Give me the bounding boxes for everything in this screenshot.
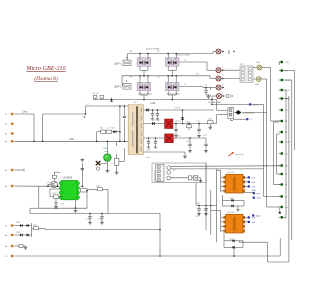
svg-text:R7: R7 bbox=[196, 74, 200, 76]
diode VD16 bbox=[152, 122, 155, 125]
capacitor C6 bbox=[100, 95, 104, 98]
diamond arrow bbox=[234, 111, 236, 113]
arrow marker right bus bbox=[278, 211, 281, 214]
svg-text:ХА2: ХА2 bbox=[255, 83, 260, 86]
diodes under U6 row2 bbox=[223, 205, 232, 207]
svg-text:оп3: оп3 bbox=[252, 186, 256, 188]
wire relay row1 top pins bbox=[139, 54, 141, 58]
svg-text:общ: общ bbox=[257, 198, 261, 200]
wire right bus v4 bbox=[272, 122, 274, 185]
svg-text:оп1: оп1 bbox=[252, 177, 256, 179]
resistor R20 bbox=[52, 175, 56, 178]
svg-text:ДИР 2: ДИР 2 bbox=[115, 86, 123, 89]
relay U2 AQW210HAX bbox=[165, 58, 179, 66]
wire U7 to bottom rail bbox=[233, 247, 235, 256]
wire UC loop left bbox=[39, 185, 59, 187]
wire right bus v7 bbox=[285, 90, 287, 217]
wire relay row2 bottom brackets bbox=[139, 91, 141, 95]
svg-text:ХД2: ХД2 bbox=[252, 190, 257, 192]
wire right bus v10 bbox=[293, 71, 295, 151]
capacitor C27 bbox=[205, 138, 207, 144]
capacitor C26 bbox=[198, 124, 200, 129]
svg-text:Упр: Упр bbox=[285, 207, 289, 209]
wire mid long bbox=[44, 228, 46, 229]
svg-text:UC3843: UC3843 bbox=[63, 176, 73, 180]
capacitor C19 bbox=[101, 214, 103, 217]
wire v2 top bbox=[243, 111, 267, 113]
input pin 10 bbox=[11, 255, 13, 257]
ground UC bbox=[74, 200, 76, 208]
svg-text:1к: 1к bbox=[184, 60, 186, 62]
wire right bus v8 bbox=[288, 96, 290, 262]
svg-text:0В: 0В bbox=[285, 154, 288, 156]
fan connector XP3 bbox=[156, 164, 164, 181]
svg-text:СУ2: СУ2 bbox=[16, 222, 21, 224]
svg-text:Т2: Т2 bbox=[285, 185, 288, 187]
input pin 8в bbox=[11, 234, 13, 236]
wire header to XA1 bbox=[253, 67, 257, 69]
fan motor M bbox=[194, 175, 198, 180]
svg-text:С29: С29 bbox=[146, 150, 151, 152]
input pin 3в bbox=[11, 132, 13, 134]
wire fan1 to bus bbox=[171, 165, 281, 168]
wire X3 to header bbox=[221, 78, 240, 80]
svg-text:AQW210HAX: AQW210HAX bbox=[177, 53, 191, 56]
resistor R33 bbox=[208, 121, 214, 124]
jack X3 bbox=[216, 76, 221, 81]
jack XA2 olive bbox=[256, 77, 261, 82]
svg-text:3: 3 bbox=[222, 75, 224, 77]
net taps right of U6 bbox=[248, 176, 250, 178]
rectifier R-box VD14 bbox=[144, 123, 165, 125]
svg-text:(Плата 8): (Плата 8) bbox=[34, 75, 57, 82]
wire right bus v2 bbox=[266, 112, 268, 207]
wire U6 right pins bbox=[243, 176, 248, 178]
wire ДИР1 feed bbox=[126, 54, 128, 61]
wire right bus v6 bbox=[278, 62, 280, 65]
resistor R35 bbox=[188, 176, 192, 180]
svg-text:С23 10мк: С23 10мк bbox=[151, 120, 161, 122]
capacitor C29 bbox=[148, 138, 150, 141]
capacitor C22 bbox=[210, 88, 212, 91]
thyristor VS1 bbox=[106, 161, 108, 163]
polarity mark bbox=[83, 116, 85, 118]
jack X2 bbox=[216, 68, 221, 73]
wire rail to connector bbox=[216, 100, 218, 111]
svg-text:+12с: +12с bbox=[253, 104, 259, 106]
wire v1 top bbox=[249, 103, 264, 105]
wire fan2 to bus bbox=[171, 168, 264, 170]
svg-text:зел.: зел. bbox=[105, 151, 109, 153]
net terminal +12В bbox=[281, 79, 283, 81]
arrow at X4 bbox=[222, 87, 224, 89]
red wire arrow bbox=[228, 153, 233, 157]
IC U5 UC3843 bbox=[61, 181, 78, 200]
svg-text:9в: 9в bbox=[5, 246, 8, 248]
rectifier R-box VD15 bbox=[144, 137, 165, 139]
svg-text:вых: вых bbox=[257, 193, 262, 195]
svg-text:VD20: VD20 bbox=[229, 198, 235, 200]
net terminal НГ bbox=[281, 195, 283, 197]
net terminal +5В bbox=[281, 61, 283, 63]
svg-text:6в: 6в bbox=[5, 186, 8, 188]
svg-text:Тр1: Тр1 bbox=[133, 102, 137, 104]
svg-text:С5 С6: С5 С6 bbox=[93, 93, 100, 95]
net terminal 0В bbox=[281, 69, 283, 71]
diode VD13 down bbox=[182, 110, 184, 117]
wire fan box bottom to caps bbox=[195, 183, 197, 206]
capacitor C16 bbox=[59, 196, 62, 198]
net terminal Т1 bbox=[281, 173, 283, 175]
connector header XP1 bbox=[240, 66, 253, 82]
capacitor C24 bbox=[157, 110, 159, 113]
jack XA1 olive bbox=[257, 65, 262, 70]
wire relay row1 bottom brackets bbox=[139, 66, 141, 70]
fan jack circles bbox=[167, 166, 171, 170]
net terminal Тпл bbox=[281, 109, 283, 111]
svg-text:4: 4 bbox=[222, 84, 224, 86]
input pin 5в bbox=[11, 169, 13, 171]
wire bottom rail of relay section bbox=[93, 99, 217, 101]
wire UC loop right bbox=[86, 191, 88, 208]
wire mid vertical 3 bbox=[216, 169, 218, 243]
svg-text:12В: 12В bbox=[208, 119, 212, 121]
svg-text:С4: С4 bbox=[157, 77, 161, 79]
svg-text:1в: 1в bbox=[5, 114, 8, 116]
wire top bus bbox=[127, 53, 213, 55]
svg-text:Б1: Б1 bbox=[285, 217, 288, 219]
svg-text:VD3: VD3 bbox=[111, 128, 116, 130]
connector ДИР1 bbox=[123, 60, 131, 66]
resistor R26 bbox=[97, 188, 102, 191]
ground U6 bbox=[237, 206, 239, 209]
wire +300 rail bbox=[15, 140, 129, 142]
svg-text:0В: 0В bbox=[285, 71, 288, 73]
svg-text:+300: +300 bbox=[69, 138, 75, 141]
net taps right of U7 bbox=[248, 216, 250, 218]
net terminal Д1 bbox=[281, 120, 283, 122]
svg-text:5: 5 bbox=[222, 93, 224, 95]
svg-text:-12В: -12В bbox=[285, 90, 290, 92]
svg-text:ХА1: ХА1 bbox=[256, 61, 261, 64]
capacitor C18 bbox=[89, 214, 91, 217]
wire after VD14 bbox=[173, 123, 217, 125]
svg-text:С7: С7 bbox=[86, 104, 90, 106]
svg-text:Б: Б bbox=[228, 49, 231, 54]
svg-text:С27: С27 bbox=[203, 135, 208, 137]
svg-text:1n: 1n bbox=[107, 128, 110, 130]
capacitor C7 bbox=[123, 106, 125, 116]
resistor R31 bbox=[187, 125, 192, 128]
relay U1 AQW210HAX bbox=[137, 58, 151, 66]
diodes under U7 row1 bbox=[224, 240, 232, 242]
wire to sense bbox=[107, 189, 109, 213]
bottom long wire bbox=[15, 255, 281, 257]
wire XA2 to bus bbox=[261, 78, 266, 80]
wire X2 to header bbox=[221, 69, 240, 71]
relay U4 AQW210HAX bbox=[165, 82, 179, 90]
net terminal 0В bbox=[281, 152, 283, 154]
relay U3 AQW210HAX bbox=[137, 82, 151, 90]
net terminal Б1 bbox=[281, 216, 283, 218]
svg-text:ТНУ-05: ТНУ-05 bbox=[227, 212, 235, 214]
capacitor C30 bbox=[155, 138, 157, 141]
svg-text:С31: С31 bbox=[195, 216, 200, 218]
IC U6 (optodriver) bbox=[226, 174, 243, 193]
net taps lower bbox=[253, 192, 255, 194]
net tap T bbox=[233, 118, 246, 120]
ground under LED bbox=[106, 163, 108, 169]
wire right bus v3 bbox=[270, 68, 272, 122]
svg-text:VD22: VD22 bbox=[229, 238, 235, 240]
diode VD12 bbox=[144, 109, 147, 111]
lower rail bbox=[30, 213, 160, 215]
wire U6 left pins bbox=[221, 176, 224, 178]
svg-text:-t°: -t° bbox=[250, 118, 252, 121]
fan circuit outline bbox=[152, 163, 206, 183]
pin9 parts bbox=[15, 245, 19, 247]
svg-text:СУ3: СУ3 bbox=[16, 232, 21, 234]
arrow at X3 bbox=[222, 78, 224, 80]
resistor R22 bbox=[53, 195, 58, 198]
svg-text:+24В: +24В bbox=[285, 142, 291, 144]
svg-text:R26: R26 bbox=[97, 185, 102, 187]
svg-text:С26: С26 bbox=[197, 121, 202, 123]
svg-text:R2: R2 bbox=[130, 51, 134, 53]
svg-text:красный: красный bbox=[235, 153, 244, 156]
connector ДИР2 bbox=[123, 84, 131, 90]
net terminal Вен bbox=[281, 164, 283, 166]
wire bottom tap bbox=[144, 151, 186, 153]
svg-text:С9: С9 bbox=[204, 85, 208, 87]
wire relay to circle K3 bbox=[209, 76, 211, 79]
wire top rail to connector bbox=[211, 104, 213, 106]
wire U7 left pins bbox=[221, 216, 224, 218]
svg-text:3в: 3в bbox=[5, 133, 8, 135]
capacitor C21 bbox=[205, 88, 207, 91]
wire relay row2 top pins bbox=[139, 76, 141, 83]
transformer primary winding A bbox=[131, 113, 134, 126]
wire UC loop bottom bbox=[39, 207, 87, 209]
input pin 7в bbox=[11, 224, 13, 226]
input pin 4в bbox=[11, 140, 13, 142]
diode VD3 bbox=[112, 131, 114, 133]
transistor VT2 bbox=[51, 181, 57, 187]
svg-text:оп4: оп4 bbox=[252, 217, 256, 219]
svg-text:2: 2 bbox=[222, 67, 224, 69]
svg-text:R22: R22 bbox=[53, 193, 58, 195]
wire U7 right pins bbox=[243, 216, 248, 218]
svg-text:оп2: оп2 bbox=[252, 182, 256, 184]
capacitor C15 top bbox=[81, 163, 83, 186]
heater connector XP2 bbox=[228, 107, 234, 118]
wire to circle K5 bbox=[211, 96, 213, 100]
wire right bus v5 bbox=[276, 134, 278, 174]
arrow at X2 bbox=[222, 69, 224, 71]
svg-text:ХДЗ: ХДЗ bbox=[256, 216, 261, 218]
wire top primary feed bbox=[86, 105, 129, 107]
svg-text:Вентилятор: Вентилятор bbox=[154, 169, 156, 181]
net tap +12 bbox=[249, 103, 251, 105]
input pin 2в bbox=[11, 123, 13, 125]
svg-text:1Упр: 1Упр bbox=[22, 111, 28, 114]
capacitor C23 bbox=[152, 110, 154, 113]
svg-text:7в: 7в bbox=[5, 225, 8, 227]
transformer primary winding B bbox=[131, 131, 134, 147]
svg-text:R25: R25 bbox=[81, 186, 86, 188]
jack X5 bbox=[217, 94, 222, 99]
wire bottom right loop bbox=[279, 238, 281, 256]
diodes under U6 row1 bbox=[223, 199, 232, 201]
wire pin6 to UC loop bbox=[15, 185, 39, 187]
svg-text:Д2: Д2 bbox=[285, 132, 288, 134]
svg-text:ДИР 1: ДИР 1 bbox=[115, 62, 123, 65]
svg-text:+12В: +12В bbox=[285, 80, 291, 82]
svg-text:AQW210HAX: AQW210HAX bbox=[146, 48, 160, 51]
input pin 1в bbox=[11, 113, 13, 115]
svg-text:ХР1: ХР1 bbox=[240, 64, 245, 66]
wire snubber down bbox=[119, 132, 121, 142]
capacitor C5 bbox=[93, 95, 97, 98]
svg-text:пит.: пит. bbox=[173, 169, 177, 171]
svg-text:VD14: VD14 bbox=[175, 121, 181, 123]
resistor R30 bbox=[34, 227, 39, 230]
wire mid bus bbox=[122, 75, 210, 77]
wire rail bbox=[211, 100, 213, 105]
diode VD2 bbox=[110, 100, 112, 102]
ground tap bbox=[184, 152, 186, 155]
wire snubber to top rail bbox=[119, 106, 121, 132]
svg-text:5в: 5в bbox=[5, 170, 8, 172]
wire bar bbox=[31, 223, 33, 237]
net terminal +НВ bbox=[281, 97, 283, 99]
wire pin1 rail bbox=[15, 113, 34, 115]
svg-text:Micro GBE-210: Micro GBE-210 bbox=[25, 66, 65, 72]
svg-text:Д1: Д1 bbox=[285, 121, 288, 123]
svg-text:10: 10 bbox=[5, 256, 8, 258]
svg-text:8в: 8в bbox=[5, 235, 8, 237]
transformer T1 bbox=[128, 105, 143, 155]
capacitor C28 bbox=[175, 124, 177, 129]
svg-text:Т1: Т1 bbox=[285, 174, 288, 176]
net terminal Д2 bbox=[281, 131, 283, 133]
wire ДИР2 feed bbox=[121, 76, 123, 84]
svg-text:оп5: оп5 bbox=[252, 222, 256, 224]
svg-text:VD15: VD15 bbox=[175, 136, 181, 138]
svg-text:Тпл: Тпл bbox=[285, 110, 289, 112]
wire header to XA2 bbox=[253, 78, 256, 80]
net terminal Упр bbox=[281, 206, 283, 208]
wire MOSFET source down bbox=[116, 165, 118, 171]
input pin 9в bbox=[11, 245, 13, 247]
svg-text:10k: 10k bbox=[100, 128, 104, 130]
IC U7 (optodriver) bbox=[226, 214, 243, 233]
diodes under U7 row2 bbox=[224, 246, 232, 248]
transistor VT1 box bbox=[114, 158, 119, 165]
wire relay to circle K4 bbox=[179, 86, 203, 88]
resistor R25 bbox=[81, 189, 88, 192]
wire pin5 stub bbox=[15, 169, 24, 171]
snubber network R10 R11 bbox=[97, 131, 101, 133]
wire relay to circle K2 bbox=[179, 61, 207, 63]
ground under circle column bbox=[206, 94, 211, 96]
wire mid vertical 2 bbox=[210, 190, 212, 235]
svg-text:R4: R4 bbox=[130, 77, 134, 79]
parts under UC bbox=[55, 198, 57, 202]
svg-text:ТНУ-05: ТНУ-05 bbox=[227, 172, 235, 174]
wire right bus v9 bbox=[291, 80, 293, 240]
symbols at X5 bbox=[223, 95, 225, 97]
net terminal +24В bbox=[281, 141, 283, 143]
jack X4 bbox=[216, 85, 221, 90]
svg-text:VD12: VD12 bbox=[175, 108, 181, 110]
svg-text:С16: С16 bbox=[60, 204, 65, 206]
svg-text:НГ: НГ bbox=[285, 197, 289, 199]
wire mid vertical 1 bbox=[205, 163, 207, 230]
capacitor C25 bbox=[189, 138, 191, 144]
wire fan3 bbox=[171, 177, 189, 179]
wire U7 bottom loop bbox=[238, 241, 240, 242]
svg-text:+24в: +24в bbox=[150, 102, 156, 105]
transformer secondary windings bbox=[140, 108, 143, 113]
junction caps mid bbox=[198, 205, 200, 207]
svg-text:R40: R40 bbox=[196, 203, 201, 205]
net terminal -12В bbox=[281, 89, 283, 91]
jack X1 bbox=[216, 49, 221, 54]
wire after VD15 bbox=[173, 137, 206, 139]
wire right bus v1 bbox=[263, 104, 265, 196]
svg-text:4в: 4в bbox=[5, 141, 8, 143]
wire MOSFET drain bbox=[119, 161, 125, 163]
svg-text:общ: общ bbox=[146, 157, 150, 159]
svg-text:2в: 2в bbox=[5, 124, 8, 126]
svg-text:+5В: +5В bbox=[285, 62, 289, 64]
svg-text:С2: С2 bbox=[157, 51, 161, 53]
input pin 6в bbox=[11, 185, 13, 187]
svg-text:тр. вкл. доп.: тр. вкл. доп. bbox=[208, 101, 222, 104]
wire riser bbox=[159, 214, 161, 257]
svg-text:R30: R30 bbox=[33, 225, 38, 227]
arrow at X1 bbox=[222, 51, 224, 53]
net terminal Т2 bbox=[281, 183, 283, 185]
svg-text:1к: 1к bbox=[184, 84, 186, 86]
LED VD9 green bbox=[106, 141, 108, 154]
